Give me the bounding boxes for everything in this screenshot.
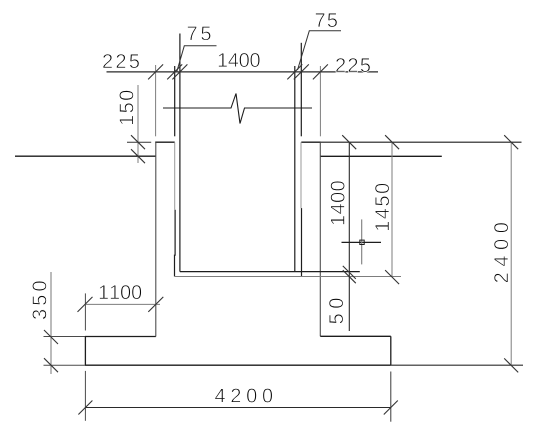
- left liner inner line: [179, 34, 181, 272]
- label 75 right: [316, 13, 338, 27]
- footing top right: [320, 335, 391, 337]
- tick 50 bottom (reversed): [343, 270, 356, 283]
- footing bottom: [85, 364, 391, 366]
- footing top left extension: [44, 336, 86, 338]
- dim line 2400 vertical: [510, 142, 512, 365]
- label 2400 vertical: [494, 223, 508, 283]
- label 150 vertical: [119, 91, 133, 125]
- tick 1100 right: [148, 297, 163, 312]
- tick 1400V bottom (reversed): [343, 266, 356, 279]
- label 4200: [215, 388, 272, 402]
- extension line right 225: [319, 66, 321, 136]
- tick 150 top: [131, 135, 145, 149]
- survey point crosshair vertical: [361, 219, 363, 264]
- channel floor top line: [180, 271, 360, 273]
- label 225 left: [103, 54, 139, 68]
- footing left edge: [84, 337, 86, 366]
- tick 4200 right: [384, 401, 398, 415]
- left wall ledge top: [155, 141, 175, 143]
- tick 150 bottom: [131, 149, 145, 163]
- label 1100: [100, 285, 142, 299]
- right wall outer face: [319, 142, 321, 336]
- leader 75 left: [177, 46, 217, 72]
- tick 1450 top: [385, 135, 399, 149]
- dim line 350 vertical: [50, 272, 52, 374]
- dim line 150: [137, 85, 139, 163]
- tick 350 bottom: [44, 358, 58, 372]
- left liner outer line lower part: [174, 210, 177, 277]
- top dimension line: [107, 71, 379, 73]
- extension 4200 left: [84, 371, 86, 421]
- extension line left 225: [155, 65, 157, 136]
- right liner outer line gray part: [300, 142, 302, 208]
- dim line 4200: [85, 407, 390, 409]
- tick 75L b: [172, 64, 187, 79]
- survey point crosshair horizontal: [342, 241, 382, 243]
- left liner outer line gray part: [174, 142, 176, 209]
- label 350 vertical: [32, 281, 46, 319]
- tick 1400V top: [342, 135, 356, 149]
- tick 4200 left: [78, 401, 92, 415]
- dim line 1400 vertical: [348, 142, 350, 331]
- tick 225L a: [148, 64, 163, 79]
- right wall ledge top: [301, 141, 321, 143]
- tick 2400 top: [504, 135, 518, 149]
- tick 350 top: [44, 330, 58, 344]
- footing right edge: [390, 336, 392, 365]
- right ground line: [320, 155, 441, 157]
- tick 2400 bottom: [504, 358, 518, 372]
- leader 75 right: [298, 31, 342, 70]
- tick 75L a: [167, 64, 182, 79]
- extension 1100 left: [84, 293, 86, 330]
- footing bottom right extension: [391, 364, 523, 366]
- tick 75R b: [294, 64, 309, 79]
- left wall outer face: [155, 142, 157, 336]
- right liner outer line upper extension: [300, 43, 302, 137]
- label 75 left: [188, 26, 211, 40]
- label 1450 vertical: [375, 184, 389, 231]
- tick 75R a: [287, 64, 302, 79]
- tick 225R b: [313, 64, 328, 79]
- dim line 1100: [86, 303, 161, 305]
- upper datum extension line to 2400: [321, 141, 522, 143]
- right liner outer line lower part: [301, 208, 303, 276]
- right liner inner line: [294, 66, 296, 272]
- dim line 1450 vertical: [391, 142, 393, 277]
- extension 4200 right: [390, 372, 392, 422]
- left ground line: [15, 155, 156, 157]
- extension 150 top: [127, 141, 151, 143]
- tick 1450 bottom: [385, 270, 399, 284]
- water level line with break symbol: [163, 94, 312, 124]
- sub-floor line: [175, 276, 401, 278]
- label 50 vertical: [329, 298, 343, 323]
- left liner outer line upper extension: [174, 66, 176, 136]
- tick 1100 left: [78, 297, 93, 312]
- label 1400 top: [219, 53, 260, 67]
- footing bottom left extension: [44, 364, 86, 366]
- survey point square: [360, 240, 364, 244]
- label 1400 vertical: [331, 181, 345, 224]
- label 225 right: [336, 58, 370, 72]
- footing top left: [85, 336, 156, 338]
